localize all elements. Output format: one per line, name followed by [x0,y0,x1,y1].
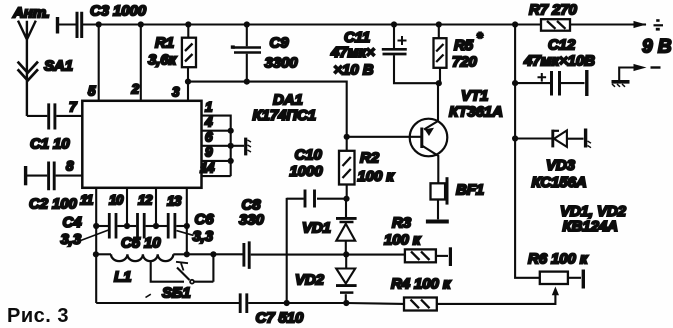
svg-text:14: 14 [200,161,215,176]
switch SA1 [18,62,38,81]
svg-text:Рис. 3: Рис. 3 [7,305,69,327]
node C9 bottom [244,79,250,85]
svg-text:C10: C10 [295,147,323,164]
capacitor C10 [317,198,347,200]
svg-text:R5: R5 [454,37,474,54]
node bus pin4 [228,128,234,134]
node rail-R1 [185,21,191,27]
svg-text:R3: R3 [392,215,412,232]
svg-text:КВ124А: КВ124А [563,218,618,235]
resistor R4 [404,298,437,311]
wire right column [515,25,540,278]
svg-text:6: 6 [205,130,213,145]
capacitor C2 [24,166,27,185]
svg-text:C2 100: C2 100 [29,196,78,213]
svg-text:R6 100 к: R6 100 к [528,251,589,268]
wire bottom rail left [96,302,241,304]
resistor R2 [346,137,348,199]
svg-text:C3 1000: C3 1000 [90,3,147,20]
svg-text:DA1: DA1 [273,92,303,109]
varicap VD1 [345,199,347,217]
capacitor C1 [27,115,47,117]
wire pin11 column [95,188,97,303]
svg-text:BF1: BF1 [456,182,484,199]
svg-text:C4: C4 [63,214,83,231]
capacitor C8 [244,241,249,269]
wire DA1 output row y82 [188,82,347,137]
wire C2 to pin8 [56,175,83,177]
terminal bar R3 [449,247,452,266]
node bottom-C10 [284,300,290,306]
svg-text:3300: 3300 [265,55,299,72]
svg-text:720: 720 [452,54,477,71]
svg-text:R1: R1 [155,35,174,52]
node base [344,134,350,140]
node pin13-L1 [184,251,190,257]
resistor R1 [187,25,189,82]
svg-text:5: 5 [88,84,96,99]
svg-text:8: 8 [66,159,74,174]
svg-text:К174ПС1: К174ПС1 [253,107,317,124]
wire 9V arrow [633,23,647,25]
node cap row 11 [93,223,99,229]
capacitor C11 [394,25,439,84]
capacitor C9 [246,25,248,82]
wire C10-left vertical down to bottom rail [286,198,288,303]
node bottom-VD2 [343,300,349,306]
switch SB1 [151,260,184,282]
wire pin10 column [126,188,128,226]
transistor Q1 VT1 [410,119,448,157]
svg-text:47мк×10В: 47мк×10В [523,53,595,70]
antenna Ант. [18,21,36,116]
zener VD3 [515,137,551,139]
svg-text:КТ361А: КТ361А [449,104,503,121]
node rail-R5 [436,21,442,27]
transducer BF1 [431,183,446,199]
svg-text:330: 330 [239,212,264,229]
svg-text:9 В: 9 В [642,37,672,58]
capacitor C5 [127,225,136,227]
svg-text:10: 10 [109,193,124,208]
svg-text:C12: C12 [548,37,576,54]
svg-text:C1 10: C1 10 [30,136,70,153]
svg-text:100 к: 100 к [358,168,396,185]
svg-text:C5 10: C5 10 [121,235,161,252]
node VD3 row [512,135,518,141]
varicap VD2 [345,254,347,268]
wire C1 to pin7 [56,115,82,117]
capacitor C6 [156,225,167,227]
inductor L1 [111,254,173,261]
node R2 bottom [343,196,349,202]
wire pin5 drop [98,25,100,101]
svg-text:9: 9 [205,145,213,160]
svg-text:47мк×: 47мк× [330,44,375,61]
wire pin12 column [155,188,157,226]
svg-text:4: 4 [204,115,213,130]
capacitor C3 [56,17,59,34]
svg-text:2: 2 [131,82,140,97]
svg-text:VD2: VD2 [295,272,325,289]
svg-text:C7 510: C7 510 [256,310,305,327]
capacitor C4 [96,225,108,227]
svg-text:VT1: VT1 [461,88,488,105]
node bus pin6 [228,143,234,149]
terminal plus [654,24,664,26]
svg-text:VD1: VD1 [302,220,331,237]
svg-text:VD3: VD3 [546,157,576,174]
node rail-C3 [96,21,102,27]
wire right pins bus [202,116,231,177]
svg-text:1: 1 [205,100,212,115]
svg-text:3,3: 3,3 [193,228,214,245]
svg-text:R4 100 к: R4 100 к [391,276,452,293]
potentiometer R6 [540,272,568,284]
node rail-C9 [244,21,250,27]
svg-text:100 к: 100 к [384,232,422,249]
node VD1-VD2 [343,251,349,257]
svg-text:1000: 1000 [290,163,324,180]
op-amp U1 / IC DA1 body [82,101,201,188]
svg-text:SБ1: SБ1 [162,285,191,302]
node rail-right [512,21,518,27]
node L1 left [93,251,99,257]
svg-text:13: 13 [167,194,182,209]
node rail-pin2 [138,21,144,27]
svg-text:C9: C9 [270,35,290,52]
capacitor C12 [515,82,550,84]
svg-text:C6: C6 [195,211,215,228]
svg-text:3,3: 3,3 [61,231,82,248]
node cap row 10 [124,223,130,229]
svg-text:3: 3 [172,85,180,100]
svg-text:12: 12 [138,193,153,208]
resistor R3 [405,249,436,262]
node cap row 13 [184,223,190,229]
ground common terminal [231,145,244,147]
node rail-C11 [391,21,397,27]
resistor R7 [541,19,570,31]
svg-text:*: * [477,30,484,47]
svg-text:×10 В: ×10 В [334,62,374,79]
svg-text:L1: L1 [114,269,131,286]
node SB1-right-top [210,251,216,257]
svg-text:3,6к: 3,6к [148,52,178,69]
svg-text:R2: R2 [360,150,380,167]
svg-text:11: 11 [80,193,93,208]
wire pin2 drop [140,25,142,101]
svg-text:КС156А: КС156А [532,174,587,191]
svg-text:7: 7 [69,100,78,115]
wiper arrow into R6 [552,287,559,296]
stray mark [146,294,151,297]
node C12 row [512,80,518,86]
svg-text:Ант.: Ант. [12,5,50,22]
node bus pin9 [228,158,234,164]
ground BF1 [426,220,449,224]
wire pin13 column [186,188,188,255]
minus terminal [619,68,634,81]
node R1 bottom [185,79,191,85]
wire pin3 drop [187,82,189,101]
svg-text:SA1: SA1 [44,58,73,75]
svg-text:R7 270: R7 270 [529,2,578,19]
node emitter top [436,80,442,86]
wire L1/C8 row [96,253,111,255]
node cap row 12 [153,223,159,229]
wire top rail [59,23,633,25]
resistor R5 [439,25,440,84]
capacitor C7 [240,293,247,313]
